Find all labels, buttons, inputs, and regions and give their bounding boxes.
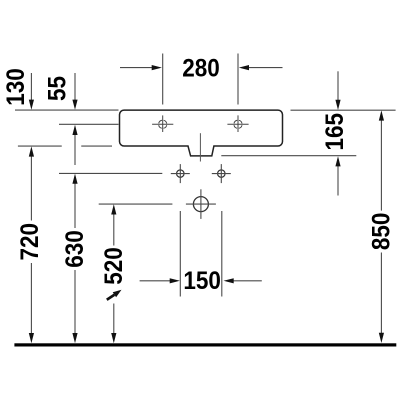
svg-text:165: 165 xyxy=(321,113,349,151)
svg-text:720: 720 xyxy=(16,223,44,261)
svg-text:850: 850 xyxy=(367,213,395,251)
svg-text:55: 55 xyxy=(43,76,71,101)
svg-text:150: 150 xyxy=(183,267,221,295)
svg-text:630: 630 xyxy=(61,230,89,268)
svg-text:520: 520 xyxy=(100,247,128,285)
svg-text:130: 130 xyxy=(2,68,30,106)
svg-text:280: 280 xyxy=(182,54,220,82)
